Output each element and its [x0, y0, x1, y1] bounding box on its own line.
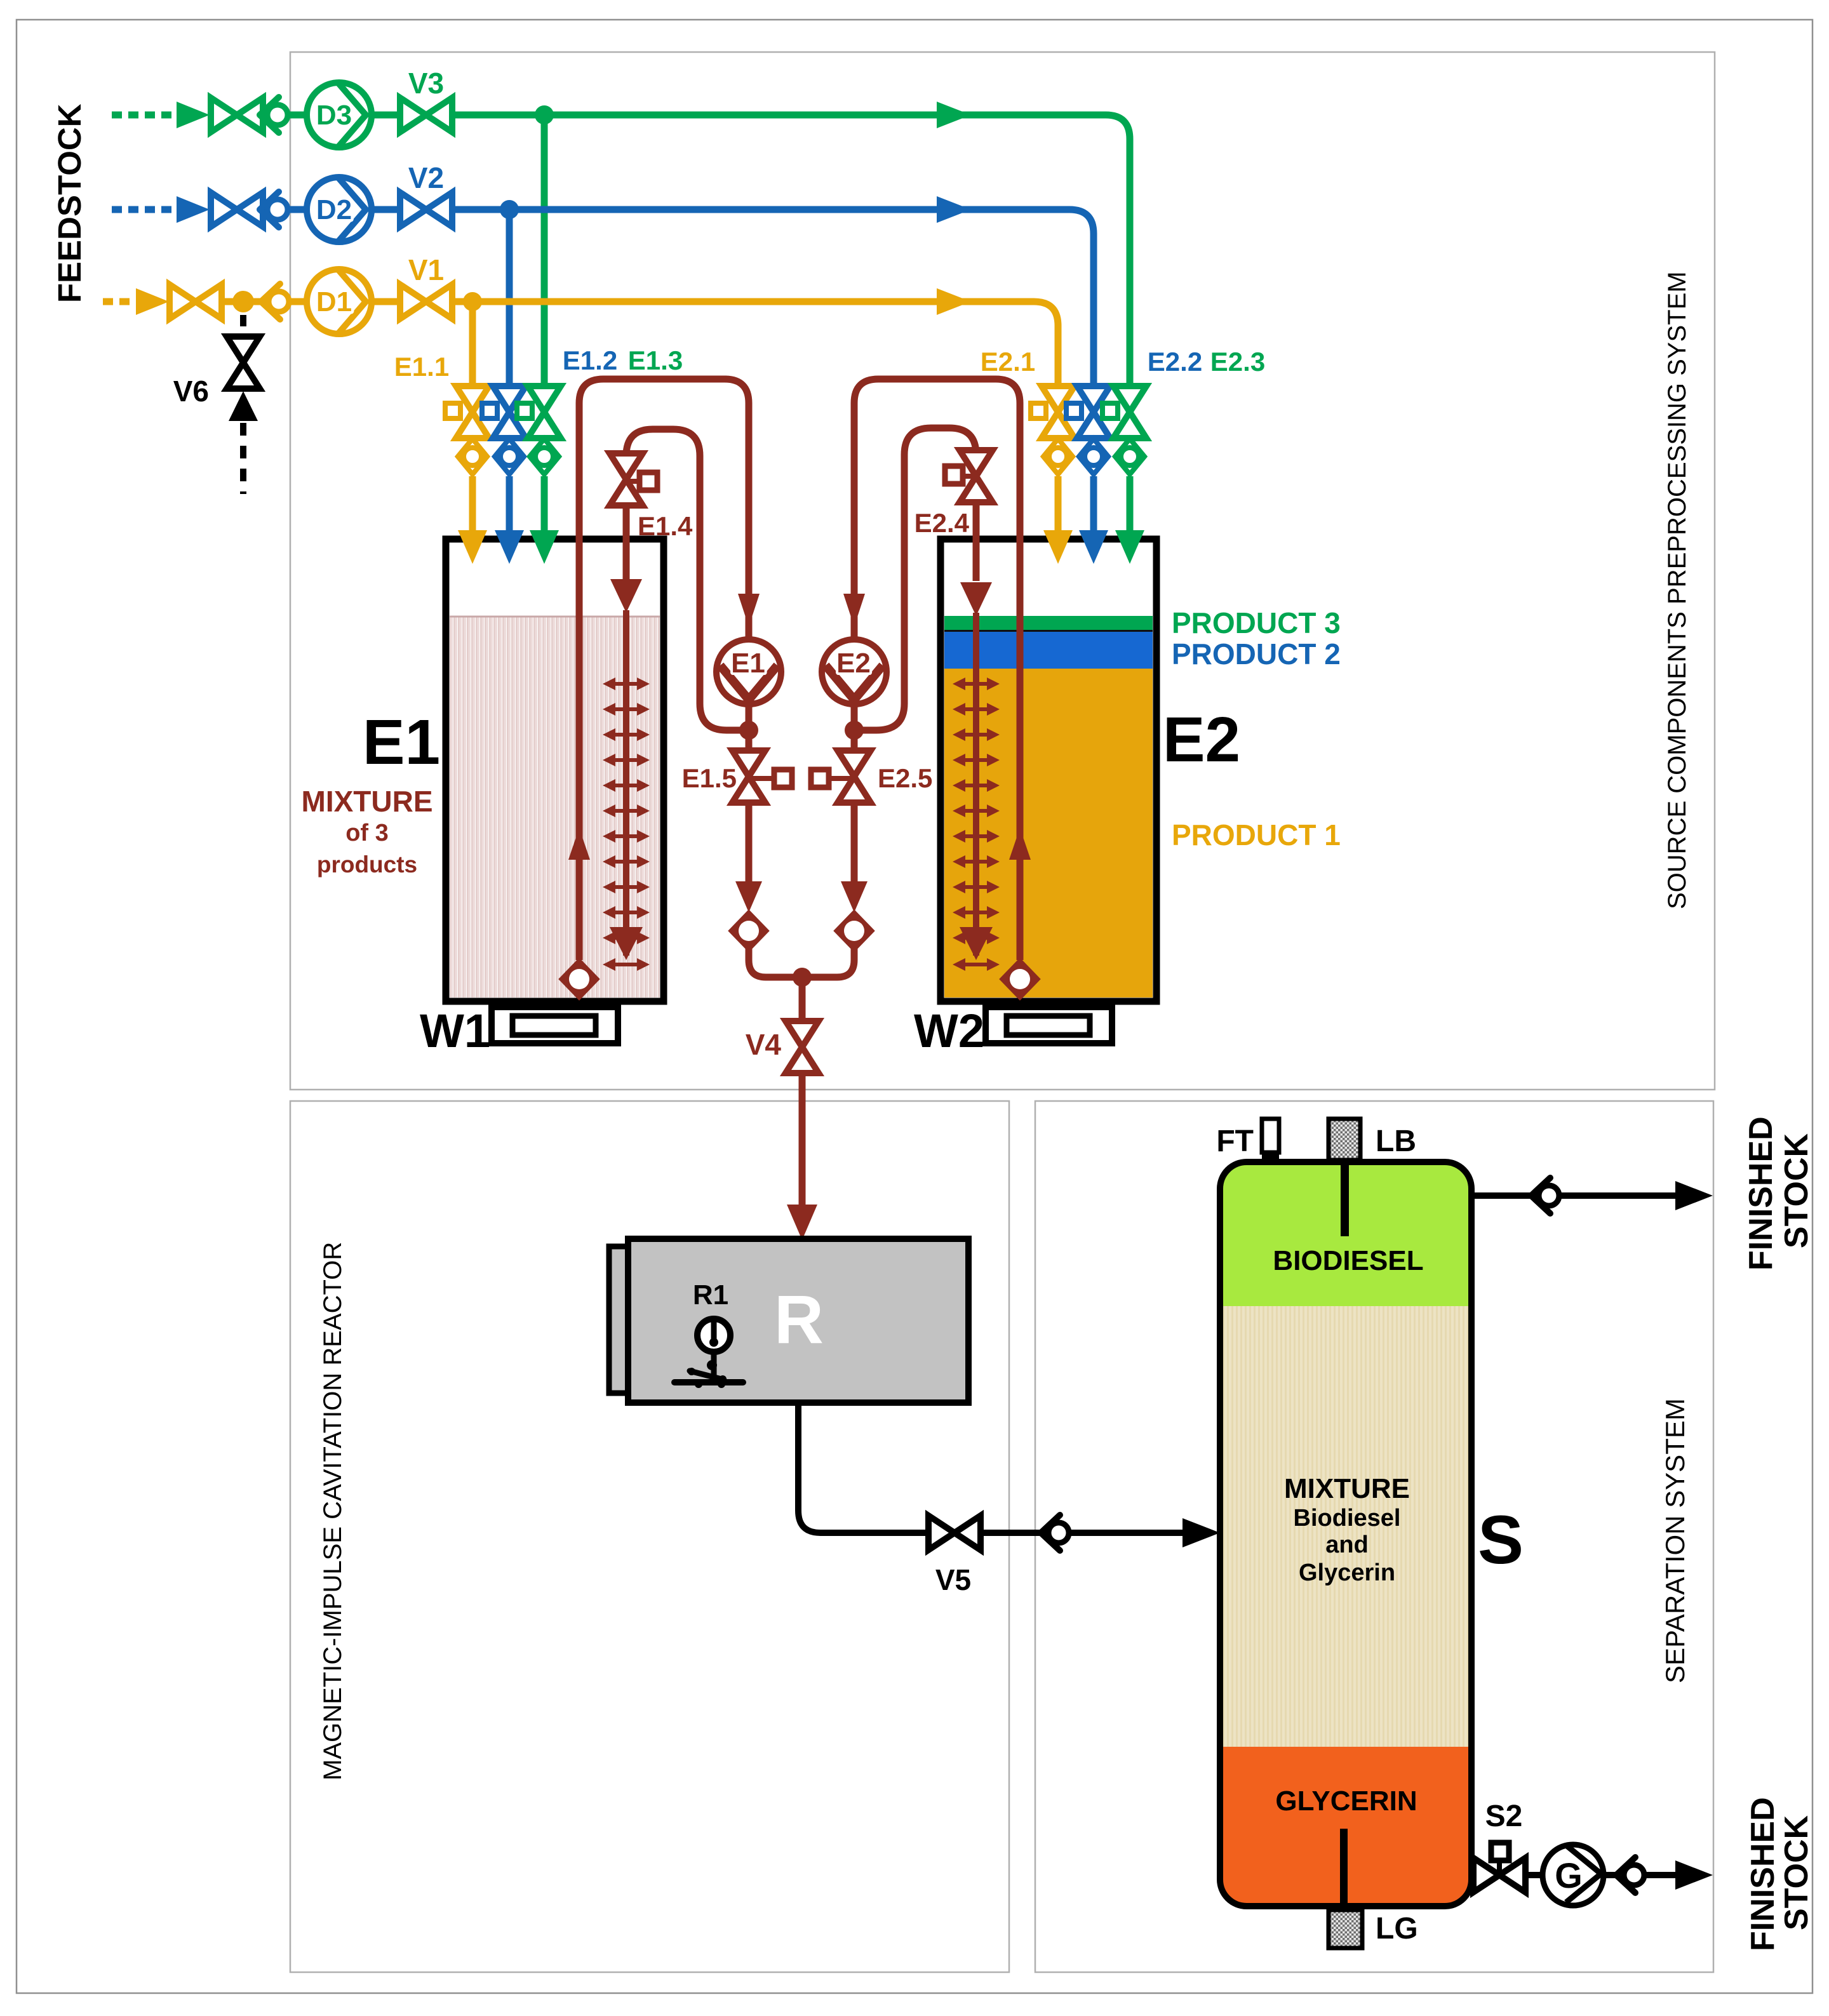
- valve yellow inlet gate: [170, 284, 222, 319]
- check valve glycerin outlet: [1616, 1857, 1644, 1893]
- tank E1 body: [446, 539, 664, 1001]
- liquid surface line E1: [450, 616, 660, 618]
- arrow into tank E2 (product 3): [1115, 530, 1144, 564]
- valve V3: [400, 98, 452, 132]
- svg-text:D2: D2: [316, 194, 352, 225]
- valve V5: [928, 1516, 981, 1550]
- svg-text:E2.4: E2.4: [914, 508, 970, 538]
- svg-text:V6: V6: [173, 375, 209, 408]
- wire: E1 outlet to V4 junction: [749, 949, 802, 977]
- scale W2: [986, 1007, 1112, 1043]
- tank E2 product 1 layer: [944, 669, 1153, 998]
- svg-text:PRODUCT 2: PRODUCT 2: [1172, 638, 1341, 671]
- wire: E2.3 into tank: [1127, 476, 1134, 533]
- wire: biodiesel outlet: [1471, 1192, 1678, 1199]
- pump G: [1543, 1845, 1604, 1906]
- check valve E2 outlet: [835, 911, 873, 951]
- pump E2: [822, 639, 887, 704]
- svg-text:S: S: [1478, 1501, 1524, 1578]
- svg-text:of 3: of 3: [345, 820, 389, 846]
- svg-text:GLYCERIN: GLYCERIN: [1275, 1786, 1417, 1817]
- arrow down to check E1: [735, 881, 762, 912]
- arrow into pump E1: [738, 594, 760, 627]
- reactor R body: [628, 1239, 968, 1403]
- valve V1: [400, 284, 452, 319]
- svg-text:FINISHED: FINISHED: [1745, 1797, 1781, 1951]
- wire: green feedstock dashed inlet: [112, 112, 173, 119]
- svg-text:LB: LB: [1376, 1125, 1416, 1158]
- node: blue junction to E1.2 drop: [500, 200, 519, 219]
- svg-text:and: and: [1325, 1532, 1369, 1558]
- arrow blue inlet: [177, 196, 210, 223]
- wire: E1 mixing return loop: [626, 429, 749, 730]
- svg-text:E1.2: E1.2: [563, 345, 617, 375]
- pump E1: [716, 639, 781, 704]
- arrow V6 inflow up: [229, 391, 258, 421]
- svg-text:E1: E1: [363, 707, 440, 778]
- svg-text:E1: E1: [731, 648, 765, 679]
- valve E1.3: [517, 386, 561, 564]
- svg-text:PRODUCT 1: PRODUCT 1: [1172, 818, 1341, 851]
- svg-text:products: products: [317, 851, 417, 878]
- wire: E2 mixing return loop: [854, 428, 976, 730]
- pump D1: [307, 269, 372, 334]
- svg-text:MIXTURE: MIXTURE: [1284, 1473, 1410, 1504]
- arrow up in tank E1 suction: [568, 828, 590, 860]
- svg-text:E1.4: E1.4: [638, 511, 693, 541]
- check valve blue inlet: [260, 192, 288, 227]
- check valve biodiesel outlet: [1531, 1178, 1559, 1213]
- arrow down E2 mixer end: [960, 927, 993, 960]
- arrow green header flow: [937, 102, 971, 128]
- wire: green line valve to pump: [210, 112, 451, 119]
- svg-text:Glycerin: Glycerin: [1299, 1559, 1395, 1586]
- wire: V6 dashed stem lower: [240, 423, 246, 494]
- arrow into tank E2 (product 1): [1043, 530, 1073, 564]
- mixer arrows E1: [603, 678, 650, 944]
- arrow into pump E2: [843, 594, 865, 627]
- valve E1.4: [610, 453, 643, 505]
- valve E2.3: [1102, 386, 1146, 564]
- node: green junction to E1.3 drop: [535, 105, 554, 124]
- reactor side plate: [609, 1246, 631, 1393]
- separator S shell: [1220, 1162, 1471, 1906]
- valve S2: [1473, 1843, 1525, 1892]
- valve E2.4: [960, 450, 993, 502]
- wire: E1.1 into tank: [469, 476, 476, 533]
- tank E2 body: [941, 539, 1156, 1001]
- arrow yellow header flow: [937, 288, 971, 315]
- wire: green drop to E1.3: [541, 115, 548, 389]
- wire: blue header to E2 drop: [451, 210, 1094, 389]
- panel: separation system: [1035, 1101, 1713, 1972]
- svg-text:D1: D1: [316, 286, 352, 317]
- svg-text:R: R: [774, 1281, 824, 1358]
- arrow mixing jet E1: [610, 579, 642, 613]
- svg-text:E1.5: E1.5: [682, 763, 737, 793]
- svg-text:STOCK: STOCK: [1778, 1815, 1815, 1930]
- wire: E1.3 into tank: [541, 476, 548, 533]
- wire: E1 suction line tank to pump: [579, 379, 749, 960]
- panel: magnetic-impulse cavitation reactor: [290, 1101, 1009, 1972]
- wire: junction to V4: [799, 977, 806, 1020]
- arrow green inlet: [177, 102, 210, 128]
- separator glycerin layer: [1220, 1747, 1471, 1906]
- svg-text:FINISHED: FINISHED: [1743, 1116, 1779, 1271]
- valve V6: [227, 337, 260, 389]
- svg-text:R1: R1: [693, 1279, 728, 1311]
- panel: source components preprocessing system: [290, 52, 1715, 1090]
- gauge R1: [674, 1319, 743, 1388]
- check valve E1 outlet: [730, 911, 768, 951]
- check valve green inlet: [260, 97, 288, 133]
- wire: V4 to reactor: [799, 1074, 806, 1206]
- arrow into reactor: [787, 1205, 817, 1240]
- scale W1: [492, 1007, 618, 1043]
- svg-text:D3: D3: [316, 100, 352, 131]
- arrow into tank E2 (product 2): [1079, 530, 1108, 564]
- arrow down to check E2: [841, 881, 868, 912]
- valve E1.1: [445, 386, 489, 564]
- svg-text:MIXTURE: MIXTURE: [302, 785, 433, 818]
- valve E2.2: [1066, 386, 1110, 564]
- check valve below E2.1: [1043, 439, 1073, 474]
- svg-text:S2: S2: [1485, 1799, 1523, 1833]
- svg-text:W1: W1: [420, 1005, 490, 1057]
- wire: E2 suction line tank to pump: [854, 379, 1020, 960]
- arrow into tank E1 (product 2): [495, 530, 524, 564]
- check valve before separator: [1041, 1515, 1069, 1551]
- foot valve tank E2: [1001, 959, 1039, 999]
- wire: E1.5 down to check: [746, 803, 753, 884]
- arrow into tank E1 (product 1): [458, 530, 487, 564]
- svg-text:SEPARATION SYSTEM: SEPARATION SYSTEM: [1660, 1398, 1690, 1683]
- svg-text:PRODUCT 3: PRODUCT 3: [1172, 606, 1341, 639]
- svg-text:E2.1: E2.1: [981, 347, 1035, 377]
- valve green inlet gate: [211, 98, 263, 132]
- svg-text:V3: V3: [408, 67, 444, 100]
- arrow yellow inlet: [136, 288, 169, 315]
- arrow mixing jet E2: [960, 582, 992, 616]
- pump D2: [307, 177, 372, 242]
- check valve below E1.2: [495, 439, 524, 474]
- pump D3: [307, 83, 372, 147]
- svg-text:V1: V1: [408, 253, 444, 286]
- node: V4 junction: [793, 968, 812, 987]
- interface line product3/product2: [944, 630, 1153, 632]
- wire: E2.5 down to check: [851, 803, 858, 884]
- wire: yellow drop to E1.1: [469, 302, 476, 389]
- svg-text:BIODIESEL: BIODIESEL: [1273, 1245, 1423, 1276]
- arrow down E1 mixer end: [610, 927, 643, 960]
- level sensor LB: [1329, 1119, 1360, 1160]
- wire: yellow line valve to pump: [169, 298, 451, 305]
- svg-text:LG: LG: [1376, 1912, 1418, 1946]
- arrow blue header flow: [937, 196, 971, 223]
- wire: yellow header to E2 drop: [451, 302, 1058, 389]
- arrow up in tank E2 suction: [1009, 828, 1031, 860]
- valve V2: [400, 192, 452, 227]
- arrow finished stock bottom: [1675, 1860, 1713, 1890]
- svg-text:E2: E2: [836, 648, 871, 679]
- node: pump E2 discharge junction: [845, 721, 864, 740]
- wire: blue drop to E1.2: [506, 210, 513, 389]
- check valve below E2.2: [1079, 439, 1108, 474]
- foot valve tank E1: [560, 959, 598, 999]
- svg-text:G: G: [1555, 1855, 1583, 1895]
- check valve yellow inlet: [261, 284, 289, 319]
- svg-text:FT: FT: [1216, 1125, 1254, 1158]
- svg-text:V5: V5: [935, 1563, 971, 1596]
- node: pump E1 discharge junction: [739, 721, 758, 740]
- svg-text:SOURCE COMPONENTS PREPROCESSIN: SOURCE COMPONENTS PREPROCESSING SYSTEM: [1663, 271, 1691, 909]
- valve V4: [786, 1021, 819, 1073]
- wire: E1.4 into tank: [623, 505, 630, 581]
- separator biodiesel layer: [1220, 1162, 1471, 1306]
- instrument FT: [1262, 1119, 1279, 1152]
- wire: E2.2 into tank: [1090, 476, 1097, 533]
- svg-text:FEEDSTOCK: FEEDSTOCK: [51, 103, 88, 303]
- svg-text:E2.2: E2.2: [1148, 347, 1202, 377]
- svg-text:E2: E2: [1163, 704, 1240, 775]
- wire: E2 mixer distribution pipe: [973, 613, 979, 956]
- valve E1.5: [732, 751, 765, 803]
- node: junction to V6: [232, 291, 254, 312]
- valve E1.2: [482, 386, 526, 564]
- tank E2 product 3 layer: [944, 616, 1153, 630]
- node: yellow junction to E1.1 drop: [463, 292, 482, 311]
- wire: blue line valve to pump: [210, 206, 451, 213]
- svg-text:STOCK: STOCK: [1778, 1133, 1815, 1248]
- valve blue inlet gate: [211, 192, 263, 227]
- wire: V5 to separator: [981, 1530, 1185, 1536]
- check valve below E2.3: [1115, 439, 1144, 474]
- tank E1 mixture liquid: [450, 617, 660, 998]
- wire: E2.4 into tank: [973, 502, 980, 581]
- wire: glycerin outlet: [1525, 1872, 1678, 1878]
- valve E2.1: [1031, 386, 1075, 564]
- wire: green header to E2 drop: [451, 115, 1130, 389]
- wire: yellow feedstock dashed inlet: [103, 298, 142, 305]
- level sensor LG: [1340, 1829, 1348, 1908]
- arrow finished stock top: [1675, 1181, 1713, 1210]
- arrow into tank E1 (product 3): [530, 530, 559, 564]
- svg-text:MAGNETIC-IMPULSE CAVITATION RE: MAGNETIC-IMPULSE CAVITATION REACTOR: [319, 1242, 347, 1780]
- check valve below E1.1: [458, 439, 487, 474]
- wire: E2 outlet to V4 junction: [802, 949, 854, 977]
- tank E2 product 2 layer: [944, 630, 1153, 669]
- wire: E2.1 into tank: [1055, 476, 1062, 533]
- svg-text:E1.3: E1.3: [628, 345, 683, 375]
- svg-text:W2: W2: [914, 1005, 984, 1057]
- arrow into separator: [1182, 1518, 1220, 1547]
- svg-text:V2: V2: [408, 161, 444, 194]
- separator mixture layer: [1220, 1306, 1471, 1747]
- wire: reactor outlet to V5: [798, 1403, 928, 1533]
- svg-text:E2.5: E2.5: [878, 763, 932, 793]
- svg-text:E1.1: E1.1: [394, 352, 449, 382]
- wire: V6 dashed stem upper: [240, 315, 246, 331]
- valve E2.5: [838, 751, 871, 803]
- mixer arrows E2: [953, 678, 1000, 944]
- wire: blue feedstock dashed inlet: [112, 206, 173, 213]
- svg-text:V4: V4: [746, 1028, 782, 1061]
- svg-text:Biodiesel: Biodiesel: [1294, 1505, 1401, 1532]
- wire: E1 mixer distribution pipe: [623, 610, 629, 956]
- svg-text:E2.3: E2.3: [1210, 347, 1265, 377]
- wire: E1.2 into tank: [506, 476, 513, 533]
- check valve below E1.3: [530, 439, 559, 474]
